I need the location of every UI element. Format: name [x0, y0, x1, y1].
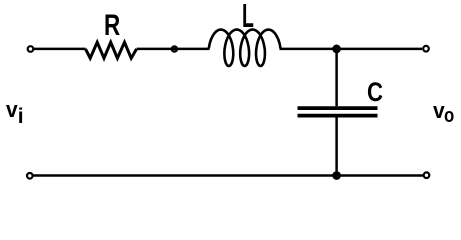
capacitor C1 bottom plate — [298, 114, 378, 118]
node B junction dot — [333, 45, 340, 52]
wire inductor to node B — [280, 48, 423, 51]
terminal output top — [423, 46, 429, 52]
label L — [242, 0, 254, 34]
wire bottom rail — [33, 174, 423, 177]
resistor R1 — [86, 42, 137, 58]
node C junction dot — [333, 172, 340, 179]
terminal output bottom — [424, 172, 430, 178]
label C — [367, 79, 383, 106]
capacitor C1 top plate — [298, 106, 378, 110]
wire node B to capacitor — [335, 49, 338, 106]
terminal input top — [28, 46, 34, 52]
wire capacitor to node C — [335, 118, 338, 176]
node A junction dot — [172, 46, 177, 51]
wire top left segment — [34, 48, 86, 51]
wire resistor to node A — [137, 48, 210, 51]
label v_i — [6, 99, 18, 122]
inductor L1 coil — [209, 30, 281, 66]
label R — [104, 11, 120, 41]
label v_o — [433, 100, 445, 123]
terminal input bottom — [27, 173, 33, 179]
